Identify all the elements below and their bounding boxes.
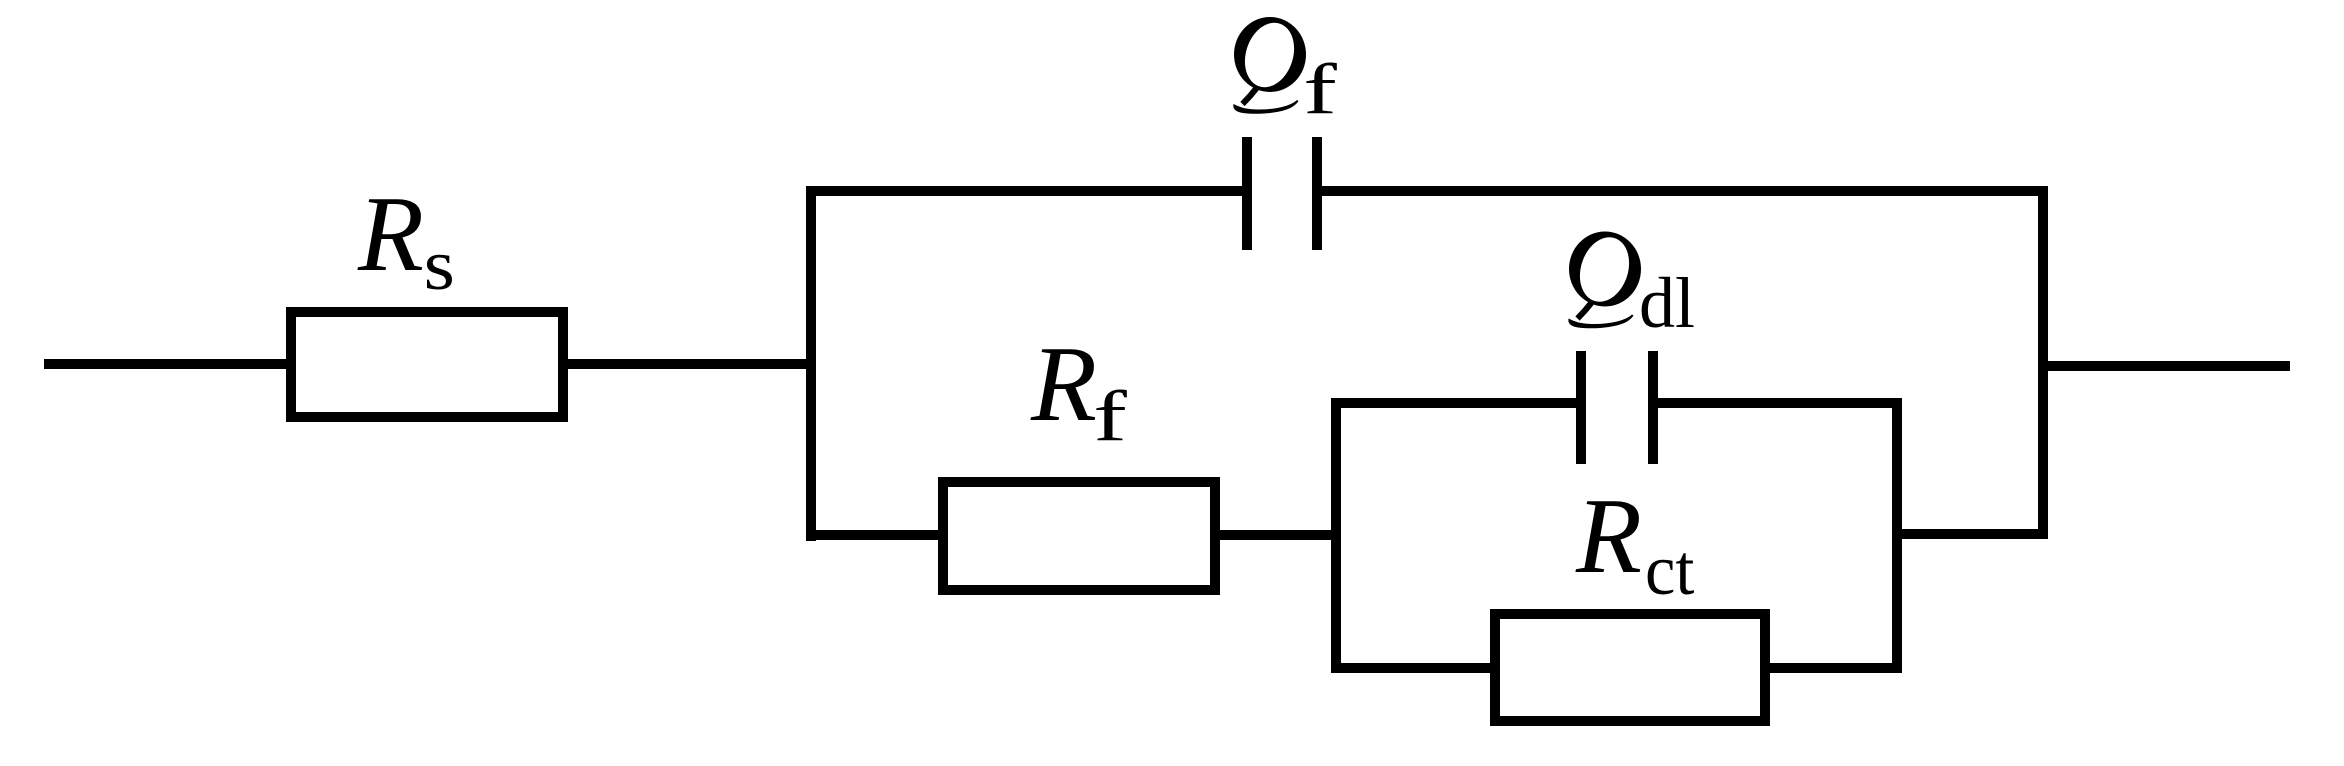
label Qf: [1233, 16, 1337, 128]
wire Rf to inner parallel: [1215, 530, 1341, 540]
wire left lead: [44, 359, 291, 369]
node B: outer parallel right vertical: [2038, 186, 2048, 539]
wire top branch right: [1317, 186, 2048, 196]
wire inner top branch left: [1331, 398, 1581, 408]
resistor Rf: [943, 482, 1215, 590]
capacitor Qf: [1247, 137, 1317, 250]
svg-text:f: f: [1093, 376, 1128, 456]
node A: outer parallel left vertical: [806, 186, 816, 541]
wire bottom branch left: [806, 530, 943, 540]
svg-text:dl: dl: [1639, 263, 1695, 343]
label Qdl: [1568, 231, 1695, 343]
svg-text:f: f: [1303, 49, 1338, 129]
svg-text:R: R: [1575, 477, 1642, 596]
wire inner bottom branch left: [1331, 663, 1495, 673]
node C: inner parallel left vertical: [1331, 398, 1341, 673]
wire inner top branch right: [1653, 398, 1902, 408]
label Rct: [1575, 477, 1695, 610]
label Rs: [357, 175, 455, 305]
resistor Rs: [291, 312, 563, 417]
wire link inner to outer right: [1897, 529, 2043, 539]
wire inner bottom branch right: [1765, 663, 1902, 673]
wire right lead: [2043, 361, 2290, 371]
svg-text:ct: ct: [1645, 530, 1695, 610]
svg-text:R: R: [357, 175, 424, 294]
svg-text:s: s: [424, 225, 455, 305]
resistor Rct: [1495, 614, 1765, 721]
wire Rs to node A: [563, 359, 816, 369]
svg-text:R: R: [1030, 325, 1097, 444]
label Rf: [1030, 325, 1128, 456]
capacitor Qdl: [1581, 351, 1653, 464]
wire top branch left: [806, 186, 1247, 196]
node D: inner parallel right vertical: [1892, 398, 1902, 673]
